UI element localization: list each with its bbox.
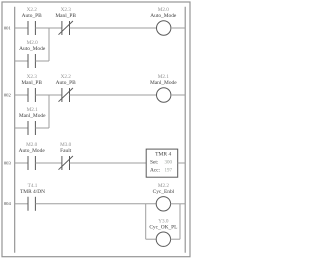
svg-text:003: 003	[4, 160, 12, 165]
contact X2.2 Auto_PB (NO)	[28, 21, 35, 35]
timer box TMR 4	[146, 149, 178, 177]
svg-text:001: 001	[4, 25, 12, 30]
wire rung1: rail to first contact	[15, 27, 28, 29]
svg-text:Cyc_OK_PL: Cyc_OK_PL	[149, 224, 177, 230]
svg-text:Manl_PB: Manl_PB	[21, 80, 42, 86]
contact M2.0 Auto_Mode (NO) branch	[28, 54, 35, 68]
frame border	[2, 2, 190, 257]
svg-text:X2.3: X2.3	[61, 7, 72, 13]
branch4 wire: dropper to coil	[146, 238, 157, 240]
svg-text:Manl_Mode: Manl_Mode	[150, 80, 177, 86]
svg-text:M3.0: M3.0	[60, 142, 72, 148]
svg-text:004: 004	[4, 201, 12, 206]
wire rung3: between contacts	[35, 162, 62, 164]
svg-text:Set:: Set:	[150, 159, 159, 165]
wire rung1: coil to rail	[171, 27, 185, 29]
svg-text:Auto_Mode: Auto_Mode	[19, 46, 46, 52]
contact X2.2 Auto_PB (NC)	[59, 88, 73, 102]
svg-text:M2.1: M2.1	[158, 74, 170, 80]
right power rail	[184, 7, 186, 253]
wire rung3: box to rail	[178, 162, 186, 164]
branch4 wire: coil to riser	[171, 238, 180, 240]
contact X2.3 Manl_PB (NO)	[28, 88, 35, 102]
coil M2.1 Manl_Mode	[157, 88, 171, 102]
svg-text:X2.2: X2.2	[61, 74, 72, 80]
svg-text:Manl_Mode: Manl_Mode	[19, 113, 46, 119]
wire rung4: rail to contact	[15, 203, 28, 205]
svg-text:197: 197	[165, 168, 173, 173]
wire rung1: between contacts	[35, 27, 62, 29]
svg-text:Auto_Mode: Auto_Mode	[150, 13, 177, 19]
svg-text:Fault: Fault	[60, 148, 72, 154]
svg-text:Cyc_Enbl: Cyc_Enbl	[153, 189, 175, 195]
contact T4.1 TMR 4/DN (NO)	[28, 197, 35, 211]
svg-text:Y3.0: Y3.0	[158, 218, 169, 224]
coil Y3.0 Cyc_OK_PL	[156, 232, 170, 246]
svg-text:M2.2: M2.2	[158, 183, 170, 189]
wire rung2: rail to first contact	[15, 94, 28, 96]
branch4 right riser	[179, 204, 181, 239]
coil M2.2 Cyc_Enbl	[156, 197, 170, 211]
left power rail	[14, 7, 16, 253]
wire rung4: to coil	[35, 203, 156, 205]
svg-text:M2.1: M2.1	[27, 107, 39, 113]
svg-text:M2.0: M2.0	[158, 7, 170, 13]
svg-text:X2.2: X2.2	[27, 7, 38, 13]
branch2 riser	[48, 95, 50, 128]
branch2 wire: contact to riser	[35, 127, 49, 129]
svg-text:300: 300	[165, 160, 173, 165]
contact M2.0 Auto_Mode (NO)	[28, 156, 35, 170]
svg-text:002: 002	[4, 92, 12, 97]
branch1 riser	[48, 28, 50, 61]
contact M3.0 Fault (NC)	[59, 156, 73, 170]
svg-text:TMR 4/DN: TMR 4/DN	[20, 189, 45, 195]
contact X2.3 Manl_PB (NC)	[59, 21, 73, 35]
svg-text:Auto_PB: Auto_PB	[56, 80, 76, 86]
svg-text:T4.1: T4.1	[28, 183, 38, 189]
wire rung3: to timer box	[70, 162, 147, 164]
wire rung3: rail to first contact	[15, 162, 28, 164]
wire rung2: between contacts	[35, 94, 62, 96]
svg-text:X2.3: X2.3	[27, 74, 38, 80]
wire rung2: coil to rail	[171, 94, 185, 96]
wire rung2: to coil	[70, 94, 157, 96]
branch1 wire: contact to riser	[35, 60, 49, 62]
coil M2.0 Auto_Mode	[157, 21, 171, 35]
wire rung4: coil to rail	[171, 203, 186, 205]
wire rung1: to coil	[70, 27, 157, 29]
svg-text:M2.0: M2.0	[26, 142, 38, 148]
svg-text:Auto_Mode: Auto_Mode	[19, 148, 46, 154]
svg-text:Auto_PB: Auto_PB	[22, 13, 42, 19]
branch4 left dropper	[145, 204, 147, 239]
branch2 wire: rail to contact	[15, 127, 28, 129]
branch1 wire: rail to contact	[15, 60, 28, 62]
svg-text:M2.0: M2.0	[27, 40, 39, 46]
svg-text:TMR 4: TMR 4	[155, 151, 171, 157]
svg-text:Manl_PB: Manl_PB	[55, 13, 76, 19]
contact M2.1 Manl_Mode (NO) branch	[28, 121, 35, 135]
svg-text:Acc:: Acc:	[150, 167, 161, 173]
